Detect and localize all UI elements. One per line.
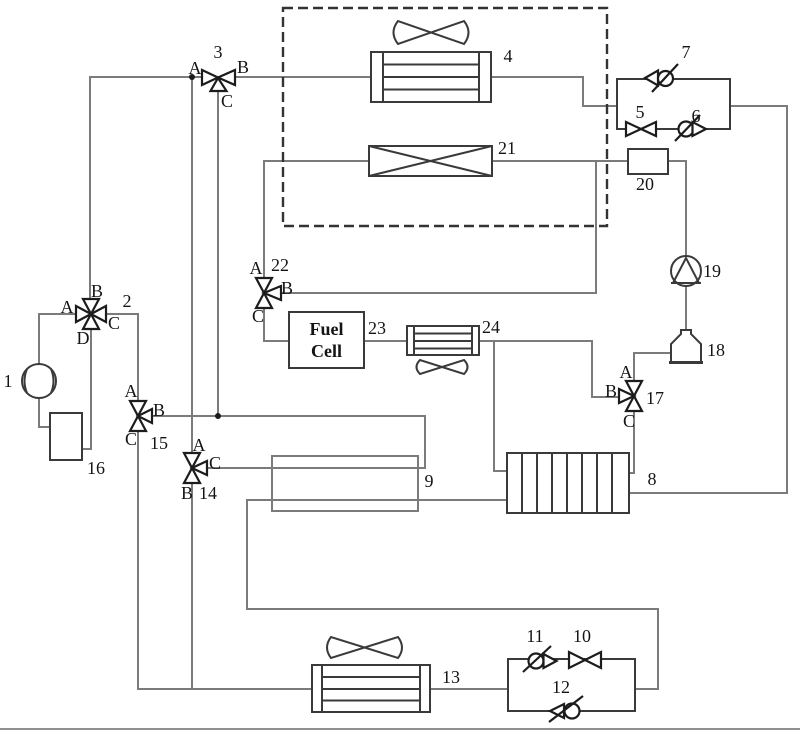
wire evaporator 21 left down to valve22 A [264, 161, 369, 278]
svg-text:C: C [623, 411, 635, 431]
svg-text:1: 1 [4, 371, 13, 391]
valve 10 [569, 652, 601, 668]
svg-text:A: A [620, 362, 633, 382]
svg-text:13: 13 [442, 667, 460, 687]
svg-text:17: 17 [646, 388, 664, 408]
evaporator 21 [369, 146, 492, 176]
svg-text:C: C [108, 313, 120, 333]
box containing 10 11 12 [508, 659, 635, 711]
wire evaporator 21 right to box 20 [492, 160, 628, 162]
svg-text:4: 4 [504, 46, 513, 66]
check valve 11 [523, 646, 557, 672]
svg-text:19: 19 [703, 261, 721, 281]
three-way valve 3 [202, 70, 235, 91]
wire valve14 C right, up, to valve15 B [152, 416, 425, 468]
check valve 12 [549, 696, 583, 722]
svg-text:14: 14 [199, 483, 217, 503]
dashed enclosure box [283, 8, 607, 226]
wire valve2 A down to pump 1 [39, 314, 76, 364]
wire reservoir 16 up to valve2 D [82, 329, 91, 449]
three-way valve 22 [256, 278, 281, 308]
pump 19 [671, 256, 701, 286]
wire fuel cell to exchanger 24 [364, 340, 407, 342]
svg-text:B: B [605, 381, 617, 401]
check valve 7 [645, 64, 678, 92]
svg-text:B: B [153, 400, 165, 420]
svg-text:11: 11 [526, 626, 543, 646]
fuel cell 23 [289, 312, 364, 368]
svg-text:15: 15 [150, 433, 168, 453]
svg-text:A: A [125, 381, 138, 401]
fan of exchanger 24 [417, 360, 468, 374]
box containing 5 6 7 [617, 79, 730, 129]
wire branch at (494,341) down to exchanger 8 left [494, 341, 507, 471]
fan of radiator 13 [327, 637, 402, 658]
reservoir 16 [50, 413, 82, 460]
wire radiator 4 right to box of 5/6/7 [491, 77, 617, 106]
wire valve3 B to radiator 4 [235, 76, 371, 78]
bottom page edge line [0, 728, 800, 730]
svg-text:B: B [181, 483, 193, 503]
svg-text:B: B [237, 57, 249, 77]
wire valve2 C to valve15 A [106, 314, 138, 401]
svg-text:18: 18 [707, 340, 725, 360]
svg-text:8: 8 [648, 469, 657, 489]
svg-text:D: D [77, 328, 90, 348]
node A junction dot at valve 3 [189, 74, 195, 80]
svg-text:C: C [221, 91, 233, 111]
wire node (192,77) down to valve14 A [191, 77, 193, 453]
four-way valve 2 [76, 299, 106, 329]
svg-text:6: 6 [692, 106, 701, 126]
wire valve17 A up to tank 18 [634, 353, 671, 381]
exchanger 8 [507, 453, 629, 513]
three-way valve 14 [184, 453, 207, 483]
svg-text:Fuel: Fuel [310, 319, 344, 339]
svg-text:A: A [61, 297, 74, 317]
svg-text:B: B [281, 278, 293, 298]
node junction dot at (218,416) [215, 413, 221, 419]
wire valve15 C down and right to radiator 13 [138, 431, 312, 689]
svg-text:2: 2 [123, 291, 132, 311]
wire valve14 B down to bottom run [191, 483, 193, 689]
three-way valve 15 [130, 401, 152, 431]
three-way valve 17 [619, 381, 642, 411]
wire valve22 C to fuel cell [264, 308, 289, 341]
fan of radiator 4 [394, 21, 469, 44]
receiver 20 [628, 149, 668, 174]
compressor 1 [22, 364, 56, 398]
radiator 13 [312, 665, 430, 712]
svg-text:A: A [193, 435, 206, 455]
svg-text:21: 21 [498, 138, 516, 158]
wire 3A-left and down to valve2 B [90, 77, 202, 299]
svg-text:12: 12 [552, 677, 570, 697]
wire box20 right to pump 19 [668, 161, 686, 256]
svg-text:10: 10 [573, 626, 591, 646]
svg-text:5: 5 [636, 102, 645, 122]
svg-text:23: 23 [368, 318, 386, 338]
svg-text:22: 22 [271, 255, 289, 275]
svg-text:B: B [91, 281, 103, 301]
svg-text:A: A [189, 58, 202, 78]
exchanger 24 [407, 326, 479, 355]
radiator 4 [371, 52, 491, 102]
svg-text:3: 3 [214, 42, 223, 62]
valve 5 [626, 122, 656, 136]
chiller 9 [272, 456, 418, 511]
wire box 5/6/7 right down to exchanger 8 right [629, 106, 787, 493]
svg-text:16: 16 [87, 458, 105, 478]
svg-text:C: C [252, 306, 264, 326]
tank 18 [669, 330, 703, 363]
svg-text:A: A [250, 258, 263, 278]
svg-text:24: 24 [482, 317, 500, 337]
wire valve3 C down to node (218,416) [217, 91, 219, 416]
svg-text:9: 9 [425, 471, 434, 491]
wire valve17 C down to exchanger 8 right [629, 411, 634, 473]
wire exchanger 24 right down to valve17 B [479, 341, 619, 397]
wire radiator 13 right to box 10/11/12 [430, 688, 508, 690]
svg-text:C: C [209, 453, 221, 473]
wire pump 1 to reservoir 16 [39, 398, 50, 427]
svg-text:C: C [125, 429, 137, 449]
svg-text:7: 7 [682, 42, 691, 62]
wire node at (596,161) down to valve22 B [281, 161, 596, 293]
wire pump 19 to tank 18 [685, 286, 687, 330]
svg-text:Cell: Cell [311, 341, 342, 361]
check valve 6 [675, 115, 706, 141]
wire exchanger 8 left low path to bottom box 10/11/12 [247, 500, 658, 689]
svg-text:20: 20 [636, 174, 654, 194]
